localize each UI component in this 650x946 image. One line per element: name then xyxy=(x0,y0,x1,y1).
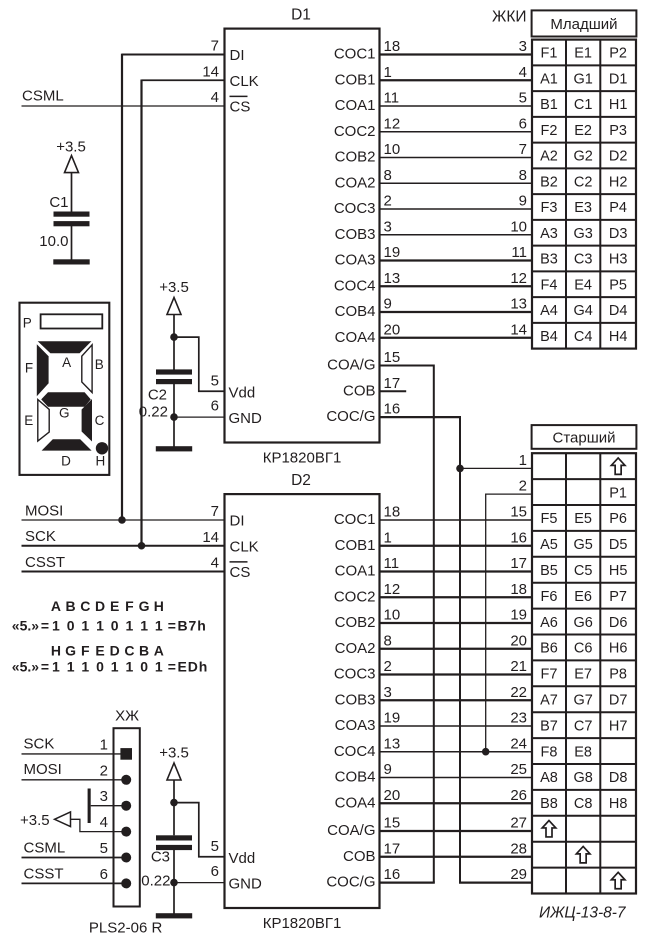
wire +3.5 down through C3 node xyxy=(173,780,175,835)
svg-text:14: 14 xyxy=(510,321,527,338)
svg-text:6: 6 xyxy=(211,398,219,415)
svg-text:5: 5 xyxy=(519,90,527,107)
svg-text:ЖКИ: ЖКИ xyxy=(492,9,526,26)
wire D1 pin row 9 to ZhKI pin 12 xyxy=(380,285,533,287)
svg-text:18: 18 xyxy=(384,38,401,55)
svg-text:COC2: COC2 xyxy=(334,123,376,140)
svg-text:+3.5: +3.5 xyxy=(159,745,189,762)
svg-text:1: 1 xyxy=(100,736,108,753)
power symbol +3.5 triangle (C2) xyxy=(167,298,181,315)
svg-text:20: 20 xyxy=(510,632,527,649)
wire SCK to pin1 xyxy=(22,753,121,755)
svg-text:G1: G1 xyxy=(573,71,592,87)
svg-text:15: 15 xyxy=(384,815,401,832)
svg-text:P6: P6 xyxy=(609,511,627,527)
svg-text:2: 2 xyxy=(519,478,527,495)
wire C3 to ground xyxy=(173,849,175,914)
svg-text:14: 14 xyxy=(202,529,219,546)
svg-text:=: = xyxy=(168,658,176,674)
svg-text:COB1: COB1 xyxy=(335,537,376,554)
svg-text:C2: C2 xyxy=(148,386,167,403)
svg-text:PLS2-06 R: PLS2-06 R xyxy=(89,919,163,936)
svg-text:MOSI: MOSI xyxy=(24,761,62,778)
svg-text:H6: H6 xyxy=(609,641,628,657)
svg-text:0: 0 xyxy=(67,618,75,634)
svg-text:10: 10 xyxy=(510,218,527,235)
wire MOSI to D2 DI xyxy=(22,519,225,521)
svg-text:4: 4 xyxy=(211,89,219,106)
svg-text:15: 15 xyxy=(384,349,401,366)
svg-text:GND: GND xyxy=(229,876,263,893)
svg-text:1: 1 xyxy=(52,658,60,674)
svg-text:1: 1 xyxy=(81,618,89,634)
wire D2 pin row 8 to LCD pin 23 xyxy=(380,725,533,727)
connector pin 4 circle xyxy=(121,827,131,837)
svg-text:C4: C4 xyxy=(574,329,593,345)
svg-text:1: 1 xyxy=(155,618,163,634)
svg-text:0: 0 xyxy=(140,658,148,674)
wire C2 node to D1 Vdd pin 5 xyxy=(174,337,225,391)
svg-text:D: D xyxy=(95,598,105,614)
svg-text:E5: E5 xyxy=(574,511,592,527)
svg-text:27: 27 xyxy=(510,815,527,832)
svg-text:G7: G7 xyxy=(573,692,592,708)
wire D2 pin row 7 to LCD pin 22 xyxy=(380,699,533,701)
svg-text:COA3: COA3 xyxy=(335,252,376,269)
svg-text:A8: A8 xyxy=(540,770,558,786)
wire D2 COB to LCD pin 28 xyxy=(380,856,533,858)
junction C3/GND xyxy=(170,879,178,887)
svg-text:P2: P2 xyxy=(609,46,627,62)
wire D1 COA/G right then down (v1) xyxy=(380,365,434,367)
svg-text:8: 8 xyxy=(384,632,392,649)
svg-text:COC1: COC1 xyxy=(334,46,376,63)
svg-text:B3: B3 xyxy=(540,252,558,268)
ground bar (C1) xyxy=(53,259,89,264)
svg-text:1: 1 xyxy=(111,658,119,674)
svg-text:C1: C1 xyxy=(574,97,593,113)
svg-text:G2: G2 xyxy=(573,149,592,165)
svg-text:7: 7 xyxy=(211,38,219,55)
svg-text:D1: D1 xyxy=(291,7,311,24)
svg-text:1: 1 xyxy=(81,658,89,674)
svg-text:1: 1 xyxy=(140,618,148,634)
LCD common arrow symbol xyxy=(576,846,590,862)
svg-text:«5.»: «5.» xyxy=(12,618,39,634)
svg-text:COC/G: COC/G xyxy=(326,408,375,425)
svg-text:Vdd: Vdd xyxy=(229,850,256,867)
svg-text:COA2: COA2 xyxy=(335,640,376,657)
svg-text:D1: D1 xyxy=(609,71,628,87)
svg-text:B2: B2 xyxy=(540,174,558,190)
wire v2 to LCD pin 29 xyxy=(459,881,532,883)
svg-text:COA4: COA4 xyxy=(335,794,376,811)
wire D2 pin row 10 to LCD pin 25 xyxy=(380,777,533,779)
table header Младший xyxy=(532,10,637,36)
svg-text:0: 0 xyxy=(96,658,104,674)
svg-text:2: 2 xyxy=(384,658,392,675)
svg-text:1: 1 xyxy=(96,618,104,634)
wire vertical CLK bus down to SCK xyxy=(140,79,142,545)
svg-text:10: 10 xyxy=(384,141,401,158)
wire MOSI to pin2 xyxy=(22,779,127,781)
svg-text:4: 4 xyxy=(100,814,108,831)
power arrow +3.5 (left pointing) xyxy=(55,812,71,827)
svg-text:A2: A2 xyxy=(540,149,558,165)
svg-text:C5: C5 xyxy=(574,563,593,579)
svg-text:B1: B1 xyxy=(540,97,558,113)
svg-text:COA/G: COA/G xyxy=(327,822,375,839)
svg-text:20: 20 xyxy=(384,787,401,804)
svg-text:«5.»: «5.» xyxy=(12,658,39,674)
wire +3.5 down through C2 node xyxy=(173,315,175,370)
junction MOSI/DI bus xyxy=(118,516,126,524)
svg-text:H: H xyxy=(96,453,106,468)
svg-text:B4: B4 xyxy=(540,329,558,345)
svg-text:COA4: COA4 xyxy=(335,329,376,346)
wire D2 pin row 5 to LCD pin 20 xyxy=(380,648,533,650)
svg-text:17: 17 xyxy=(384,840,401,857)
svg-text:H: H xyxy=(51,642,61,658)
svg-text:SCK: SCK xyxy=(25,528,56,545)
wire D1 pin row 5 to ZhKI pin 8 xyxy=(380,182,533,184)
wire D1 COB stub pin17 xyxy=(380,390,407,392)
LCD common arrow symbol xyxy=(542,821,556,837)
svg-text:P1: P1 xyxy=(609,485,627,501)
svg-text:1: 1 xyxy=(384,64,392,81)
svg-text:C3: C3 xyxy=(574,252,593,268)
svg-text:COB: COB xyxy=(343,848,376,865)
svg-text:3: 3 xyxy=(384,684,392,701)
svg-text:9: 9 xyxy=(384,761,392,778)
svg-text:E4: E4 xyxy=(574,277,592,293)
svg-text:15: 15 xyxy=(510,504,527,521)
D2 CS overline xyxy=(230,561,248,563)
svg-text:COA1: COA1 xyxy=(335,563,376,580)
segment H decimal point (filled) xyxy=(96,442,108,454)
svg-text:GND: GND xyxy=(229,410,263,427)
wire CSST to D2 CS xyxy=(22,570,225,572)
svg-text:B6: B6 xyxy=(540,641,558,657)
svg-text:E8: E8 xyxy=(574,744,592,760)
svg-text:COC3: COC3 xyxy=(334,666,376,683)
svg-text:D8: D8 xyxy=(609,770,628,786)
svg-text:H2: H2 xyxy=(609,174,628,190)
svg-text:G5: G5 xyxy=(573,537,592,553)
svg-text:E: E xyxy=(24,413,33,428)
svg-text:A4: A4 xyxy=(540,303,558,319)
connector XЖ body PLS2-06 xyxy=(114,728,140,906)
svg-text:CS: CS xyxy=(230,564,251,581)
wire D2 pin row 11 to LCD pin 26 xyxy=(380,802,533,804)
wire CSST to pin6 xyxy=(22,882,127,884)
table body Старший xyxy=(532,453,636,893)
wire D1 COC/G right then down (v2) xyxy=(380,416,461,418)
svg-text:B7h: B7h xyxy=(178,618,207,634)
capacitor C1 plates xyxy=(54,212,90,217)
svg-text:Старший: Старший xyxy=(552,429,615,446)
svg-text:C: C xyxy=(95,413,105,428)
svg-text:4: 4 xyxy=(519,64,527,81)
svg-text:G3: G3 xyxy=(573,226,592,242)
segment G (filled) xyxy=(41,392,91,407)
junction C2/GND xyxy=(170,413,178,421)
svg-text:2: 2 xyxy=(384,193,392,210)
svg-text:SCK: SCK xyxy=(24,735,55,752)
svg-text:14: 14 xyxy=(202,63,219,80)
svg-text:P4: P4 xyxy=(609,200,627,216)
svg-text:P8: P8 xyxy=(609,667,627,683)
svg-text:P3: P3 xyxy=(609,123,627,139)
svg-text:COB2: COB2 xyxy=(335,614,376,631)
svg-text:CSML: CSML xyxy=(24,840,66,857)
svg-text:26: 26 xyxy=(510,787,527,804)
wire D1 pin row 7 to ZhKI pin 10 xyxy=(380,234,533,236)
svg-text:H8: H8 xyxy=(609,796,628,812)
wire D1 pin row 4 to ZhKI pin 7 xyxy=(380,157,533,159)
svg-text:COC1: COC1 xyxy=(334,511,376,528)
wire bar to pin3 xyxy=(91,805,127,807)
svg-text:10: 10 xyxy=(384,607,401,624)
svg-text:+3.5: +3.5 xyxy=(56,139,86,156)
segment P rectangle xyxy=(41,314,103,328)
svg-text:7: 7 xyxy=(211,503,219,520)
svg-text:25: 25 xyxy=(510,761,527,778)
svg-text:F: F xyxy=(25,360,33,375)
svg-text:1: 1 xyxy=(155,658,163,674)
wire D2 pin row 3 to LCD pin 18 xyxy=(380,596,533,598)
svg-text:29: 29 xyxy=(510,866,527,883)
svg-text:1: 1 xyxy=(519,452,527,469)
svg-text:A: A xyxy=(62,355,71,370)
svg-text:9: 9 xyxy=(519,193,527,210)
svg-text:ХЖ: ХЖ xyxy=(115,708,139,725)
svg-text:F7: F7 xyxy=(541,667,558,683)
wire D1 pin row 0 to ZhKI pin 3 xyxy=(380,53,533,55)
svg-text:13: 13 xyxy=(384,735,401,752)
connector pin 6 circle xyxy=(121,878,131,888)
svg-text:F: F xyxy=(125,598,134,614)
connector pin 5 circle xyxy=(121,853,131,863)
segment F (filled) xyxy=(37,344,49,396)
svg-text:C2: C2 xyxy=(574,174,593,190)
svg-text:7: 7 xyxy=(519,141,527,158)
svg-text:19: 19 xyxy=(510,607,527,624)
IC D2 KR1820VG1 body xyxy=(225,494,380,908)
svg-text:G: G xyxy=(65,642,76,658)
svg-text:COC2: COC2 xyxy=(334,588,376,605)
svg-text:C: C xyxy=(80,598,90,614)
svg-text:F: F xyxy=(81,642,90,658)
svg-text:6: 6 xyxy=(211,863,219,880)
svg-text:G4: G4 xyxy=(573,303,592,319)
svg-text:COA3: COA3 xyxy=(335,717,376,734)
svg-text:28: 28 xyxy=(510,840,527,857)
svg-text:DI: DI xyxy=(230,47,245,64)
svg-text:C8: C8 xyxy=(574,796,593,812)
svg-text:24: 24 xyxy=(510,735,527,752)
svg-text:C7: C7 xyxy=(574,718,593,734)
svg-text:G8: G8 xyxy=(573,770,592,786)
wire D1 pin row 8 to ZhKI pin 11 xyxy=(380,259,533,261)
svg-text:COC/G: COC/G xyxy=(326,874,375,891)
wire LCD pin 2 left then down (v3) xyxy=(486,493,532,495)
wire D2 COC/G to v1 xyxy=(380,881,435,883)
svg-text:C1: C1 xyxy=(49,194,68,211)
wire CSML to pin5 xyxy=(22,857,127,859)
svg-text:B7: B7 xyxy=(540,718,558,734)
seven-segment display pictogram box xyxy=(20,303,110,475)
svg-text:6: 6 xyxy=(100,866,108,883)
svg-text:B: B xyxy=(139,642,149,658)
IC D1 KR1820VG1 body xyxy=(225,29,380,443)
svg-text:H: H xyxy=(154,598,164,614)
svg-text:CSST: CSST xyxy=(24,866,64,883)
wire C2 to ground xyxy=(173,382,175,447)
svg-text:11: 11 xyxy=(384,90,400,107)
svg-text:H1: H1 xyxy=(609,97,628,113)
junction C3/Vdd xyxy=(170,799,178,807)
svg-text:4: 4 xyxy=(211,555,219,572)
svg-text:C6: C6 xyxy=(574,641,593,657)
svg-text:D2: D2 xyxy=(609,149,628,165)
svg-text:+3.5: +3.5 xyxy=(20,812,50,829)
svg-text:COA/G: COA/G xyxy=(327,357,375,374)
svg-text:A: A xyxy=(51,598,61,614)
svg-text:17: 17 xyxy=(510,555,527,572)
svg-text:D5: D5 xyxy=(609,537,628,553)
svg-text:16: 16 xyxy=(384,401,401,418)
svg-text:F8: F8 xyxy=(541,744,558,760)
svg-text:C3: C3 xyxy=(151,849,170,866)
svg-text:C: C xyxy=(124,642,134,658)
wire D1 pin row 10 to ZhKI pin 13 xyxy=(380,311,533,313)
segment D (filled) xyxy=(42,439,92,450)
segment B (outline) xyxy=(82,345,92,393)
svg-text:17: 17 xyxy=(384,375,401,392)
svg-text:COC4: COC4 xyxy=(334,743,376,760)
wire +3.5 arrow to pin4 xyxy=(71,819,127,831)
svg-text:=: = xyxy=(41,618,49,634)
svg-text:P5: P5 xyxy=(609,277,627,293)
svg-text:E3: E3 xyxy=(574,200,592,216)
connector pin 3 circle xyxy=(121,801,131,811)
svg-text:COC4: COC4 xyxy=(334,277,376,294)
svg-text:12: 12 xyxy=(384,581,401,598)
svg-text:+3.5: +3.5 xyxy=(159,279,189,296)
svg-text:1: 1 xyxy=(384,529,392,546)
power symbol +3.5 triangle (C1) xyxy=(65,156,79,173)
svg-text:E1: E1 xyxy=(574,46,592,62)
svg-text:F2: F2 xyxy=(541,123,558,139)
svg-text:EDh: EDh xyxy=(178,658,209,674)
capacitor C2 plates xyxy=(156,369,192,374)
wire D2 pin row 0 to LCD pin 15 xyxy=(380,519,533,521)
svg-text:10.0: 10.0 xyxy=(39,233,68,250)
svg-text:13: 13 xyxy=(510,296,527,313)
svg-text:B: B xyxy=(95,357,104,372)
junction SCK/CLK bus xyxy=(138,542,146,550)
svg-text:COB1: COB1 xyxy=(335,71,376,88)
svg-text:A: A xyxy=(154,642,164,658)
wire +3.5 to C1 xyxy=(71,173,73,212)
svg-text:F5: F5 xyxy=(541,511,558,527)
svg-text:E6: E6 xyxy=(574,589,592,605)
svg-text:CSML: CSML xyxy=(22,87,64,104)
svg-text:CSST: CSST xyxy=(25,554,65,571)
wire D2 pin row 6 to LCD pin 21 xyxy=(380,673,533,675)
wire D1 CLK from vertical bus xyxy=(142,79,225,81)
svg-text:G: G xyxy=(139,598,150,614)
svg-text:23: 23 xyxy=(510,710,527,727)
wire D1 pin row 2 to ZhKI pin 5 xyxy=(380,105,533,107)
wire D1 DI from vertical bus xyxy=(122,54,225,56)
svg-text:B5: B5 xyxy=(540,563,558,579)
table body Младший xyxy=(532,40,636,349)
svg-text:COB3: COB3 xyxy=(335,691,376,708)
svg-text:8: 8 xyxy=(519,167,527,184)
LCD common arrow symbol xyxy=(611,872,625,888)
svg-text:22: 22 xyxy=(510,684,527,701)
svg-text:D: D xyxy=(61,453,71,468)
svg-text:D7: D7 xyxy=(609,692,628,708)
svg-text:19: 19 xyxy=(384,710,401,727)
svg-text:1: 1 xyxy=(67,658,75,674)
svg-text:E: E xyxy=(95,642,104,658)
svg-text:F3: F3 xyxy=(541,200,558,216)
wire D2 COA/G to LCD pin 27 xyxy=(380,830,533,832)
segment C (filled) xyxy=(82,399,92,442)
svg-text:5: 5 xyxy=(211,372,219,389)
svg-text:A5: A5 xyxy=(540,537,558,553)
wire D1 pin row 6 to ZhKI pin 9 xyxy=(380,208,533,210)
svg-text:5: 5 xyxy=(211,838,219,855)
svg-text:0.22: 0.22 xyxy=(141,873,170,890)
wire D2 pin row 4 to LCD pin 19 xyxy=(380,622,533,624)
wire D2 pin row 9 to LCD pin 24 xyxy=(380,751,533,753)
svg-text:A3: A3 xyxy=(540,226,558,242)
svg-text:D: D xyxy=(110,642,120,658)
svg-text:13: 13 xyxy=(384,270,401,287)
svg-text:Vdd: Vdd xyxy=(229,384,256,401)
svg-text:COA1: COA1 xyxy=(335,97,376,114)
svg-text:COB4: COB4 xyxy=(335,769,376,786)
junction v2 / pin1 xyxy=(456,465,464,473)
key bar at pins 3-4 xyxy=(88,789,91,824)
svg-text:E7: E7 xyxy=(574,667,592,683)
svg-text:8: 8 xyxy=(384,167,392,184)
svg-text:=: = xyxy=(168,618,176,634)
svg-text:1: 1 xyxy=(52,618,60,634)
svg-text:A1: A1 xyxy=(540,71,558,87)
svg-text:1: 1 xyxy=(126,658,134,674)
svg-text:MOSI: MOSI xyxy=(25,503,63,520)
svg-text:КР1820ВГ1: КР1820ВГ1 xyxy=(263,915,342,932)
svg-text:1: 1 xyxy=(126,618,134,634)
svg-text:H4: H4 xyxy=(609,329,628,345)
svg-text:D4: D4 xyxy=(609,303,628,319)
segment A (filled) xyxy=(38,341,92,353)
table header Старший xyxy=(532,425,637,449)
svg-text:20: 20 xyxy=(384,321,401,338)
wire D2 pin row 2 to LCD pin 17 xyxy=(380,570,533,572)
svg-text:D6: D6 xyxy=(609,615,628,631)
segment E (outline) xyxy=(38,400,49,442)
svg-text:D3: D3 xyxy=(609,226,628,242)
junction C2/Vdd xyxy=(170,333,178,341)
ground bar (C3) xyxy=(156,913,192,918)
connector pin 1 square xyxy=(120,748,132,760)
